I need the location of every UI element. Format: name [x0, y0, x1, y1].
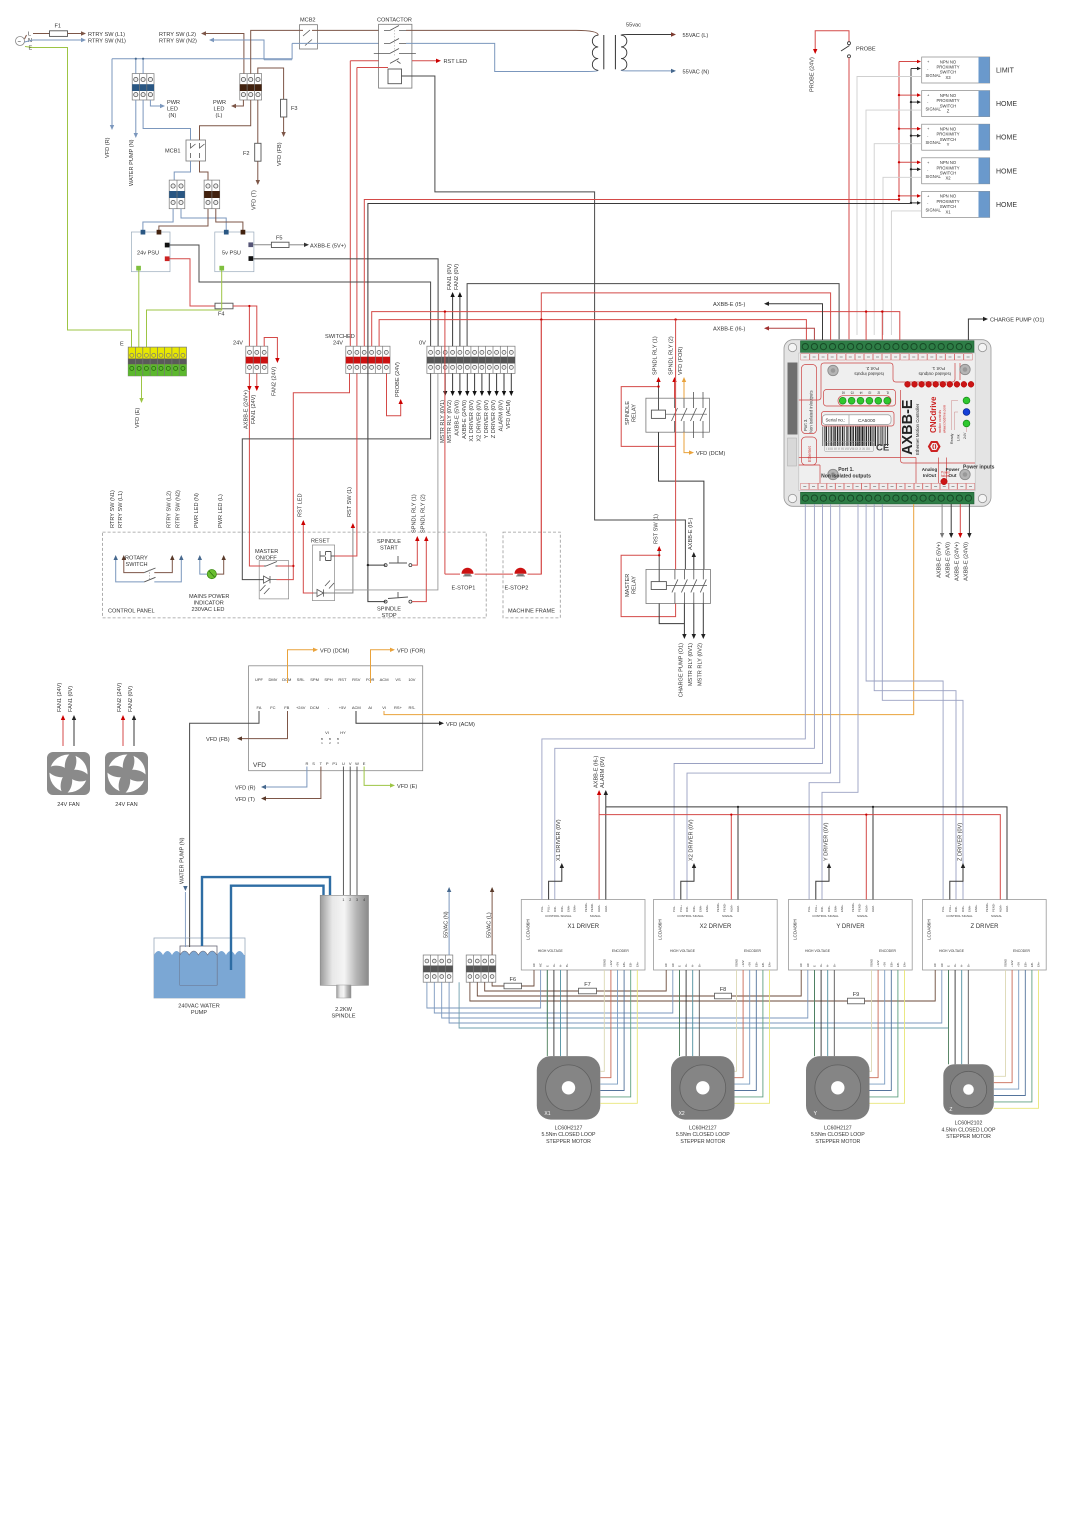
fan 24V FAN: [105, 752, 148, 808]
svg-text:SGND: SGND: [1004, 959, 1008, 967]
svg-text:Ethernet Motion Controller: Ethernet Motion Controller: [915, 403, 920, 455]
svg-text:55VAC (L): 55VAC (L): [486, 912, 492, 938]
svg-text:STEPPER MOTOR: STEPPER MOTOR: [680, 1139, 725, 1145]
wire E: [25, 47, 132, 348]
svg-text:RELAY: RELAY: [632, 576, 638, 594]
svg-text:PEND-: PEND-: [590, 903, 594, 912]
wire N through MCB2: [292, 42, 379, 44]
svg-text:PUL-: PUL-: [540, 906, 544, 912]
wire -: [911, 101, 917, 103]
svg-text:EB+: EB+: [1023, 961, 1027, 967]
wire AXBB-E (5V0): [950, 504, 952, 533]
wire VFD (DCM): [288, 650, 314, 683]
wire Z DRIVER (0V): [496, 373, 498, 391]
svg-text:SPINDLE: SPINDLE: [332, 1014, 356, 1020]
svg-text:W: W: [355, 761, 359, 766]
fuse F9: [848, 998, 865, 1004]
wire encoder bundle Z: [994, 970, 1006, 1076]
wire signal: [866, 110, 922, 335]
stepper motor X1 (LC60H2127): [537, 1056, 601, 1145]
svg-text:RST SW (1): RST SW (1): [653, 514, 659, 544]
svg-text:SGND: SGND: [735, 959, 739, 967]
wire VFD (E): [364, 767, 390, 786]
wire PWR LED (L): [236, 100, 243, 106]
svg-text:+12V: +12V: [609, 960, 613, 967]
wire prox 0V black bus: [910, 69, 912, 204]
svg-text:LCDA86H: LCDA86H: [927, 919, 932, 940]
wire step/dir 2: [555, 504, 815, 900]
svg-text:Port 1.: Port 1.: [931, 366, 945, 371]
svg-text:ALM-: ALM-: [604, 905, 608, 912]
svg-text:EB-: EB-: [896, 962, 900, 967]
svg-text:X1 DRIVER (0V): X1 DRIVER (0V): [556, 819, 562, 861]
svg-text:MCB1: MCB1: [165, 149, 181, 155]
small terminal block blue: [169, 180, 185, 209]
svg-text:EB+: EB+: [754, 961, 758, 967]
svg-text:WATER PUMP (N): WATER PUMP (N): [180, 837, 186, 884]
svg-text:SPM: SPM: [310, 677, 319, 682]
fuse F3: [258, 68, 284, 99]
wire prox 24V red bus: [898, 62, 900, 200]
wire MSTR RLY (0V2): [452, 373, 454, 391]
svg-text:ALM+: ALM+: [998, 904, 1002, 912]
wire red bus y320 relay feed: [379, 320, 806, 347]
svg-text:SIGNAL: SIGNAL: [590, 914, 601, 918]
svg-text:SPNDL RLY (1): SPNDL RLY (1): [412, 494, 418, 533]
wire PWR LED (N): [200, 560, 207, 574]
svg-text:PEND+: PEND+: [716, 902, 720, 912]
svg-text:RELAY: RELAY: [632, 404, 638, 422]
labels above: RTRY SW (N1): [110, 490, 118, 560]
wire AXBB-E (24V0): [466, 373, 468, 391]
svg-text:ALM+: ALM+: [729, 904, 733, 912]
svg-text:CNCdrive: CNCdrive: [929, 396, 938, 433]
svg-text:EB-: EB-: [1030, 962, 1034, 967]
svg-text:CONTROL SIGNAL: CONTROL SIGNAL: [545, 914, 572, 918]
svg-text:FAN1 (24V): FAN1 (24V): [57, 683, 63, 712]
svg-text:F1: F1: [55, 24, 62, 30]
svg-text:LCDA86H: LCDA86H: [793, 919, 798, 940]
svg-text:EB+: EB+: [622, 961, 626, 967]
svg-text:24V: 24V: [233, 341, 243, 347]
svg-text:24v PSU: 24v PSU: [137, 251, 159, 257]
terminal strip bottom: [801, 492, 975, 504]
wire +: [899, 61, 917, 63]
svg-text:Isolated inputs: Isolated inputs: [854, 372, 884, 377]
svg-text:VFD (ACM): VFD (ACM): [446, 722, 475, 728]
svg-text:PEND+: PEND+: [584, 902, 588, 912]
svg-text:VFD (ACM): VFD (ACM): [506, 400, 512, 429]
wire VFD (T): [266, 767, 321, 799]
wire FAN1 (0V): [73, 720, 75, 746]
svg-text:F8: F8: [720, 987, 727, 993]
coil: [388, 69, 402, 84]
wires into MCB1: [143, 100, 190, 140]
svg-text:AI: AI: [368, 705, 372, 710]
wire red bus inputs I3/I2/I1: [445, 312, 900, 340]
svg-text:SIGNAL: SIGNAL: [991, 914, 1002, 918]
wire estop1-estop2: [475, 573, 514, 575]
wire FAN1 (24V): [256, 373, 258, 386]
wire 55VAC (L) label: [491, 892, 493, 955]
svg-text:(N): (N): [169, 113, 177, 119]
svg-text:ALM-: ALM-: [1005, 905, 1009, 912]
svg-text:5.5Nm CLOSED LOOP: 5.5Nm CLOSED LOOP: [676, 1132, 730, 1138]
svg-text:I4: I4: [860, 390, 863, 394]
svg-text:FAN2 (24V): FAN2 (24V): [272, 367, 278, 396]
switch SPINDLE STOP: [384, 600, 387, 603]
svg-text:PUL+: PUL+: [547, 905, 551, 912]
svg-text:SPINDLE: SPINDLE: [377, 539, 401, 545]
svg-text:ENA+: ENA+: [573, 904, 577, 912]
svg-text:F6: F6: [510, 977, 517, 983]
PSU 5v: [215, 230, 254, 272]
svg-text:DIR-: DIR-: [553, 906, 557, 912]
wire PROBE (24V): [387, 373, 401, 415]
wire step/dir 6: [822, 504, 858, 900]
wire signal: [883, 177, 922, 335]
svg-text:AXBB-E (I5-): AXBB-E (I5-): [713, 302, 745, 308]
svg-text:PEND-: PEND-: [857, 903, 861, 912]
wire VFD FA to water pump: [190, 711, 259, 946]
wires green earth: [138, 271, 140, 348]
svg-text:AC: AC: [671, 963, 675, 967]
svg-text:E: E: [120, 342, 124, 348]
svg-text:FAN1 (0V): FAN1 (0V): [68, 686, 74, 712]
svg-text:RST SW (1): RST SW (1): [347, 487, 353, 517]
svg-text:+5V: +5V: [1017, 962, 1021, 967]
svg-text:LCDA86H: LCDA86H: [525, 919, 530, 940]
wire N contactor to transformer: [406, 43, 598, 71]
svg-text:PUMP: PUMP: [191, 1010, 207, 1016]
VFD: [249, 666, 423, 771]
wire RST LED: [303, 525, 313, 593]
stepper driver X1 DRIVER: [521, 900, 645, 971]
svg-text:Link: Link: [957, 434, 961, 441]
svg-text:Y DRIVER: Y DRIVER: [836, 924, 865, 930]
svg-text:AXBB-E (5V0): AXBB-E (5V0): [946, 542, 952, 578]
svg-text:RTRY SW (N1): RTRY SW (N1): [88, 38, 126, 44]
svg-text:(L): (L): [216, 113, 223, 119]
svg-text:FA: FA: [257, 705, 262, 710]
e-stop E-STOP2: [515, 568, 527, 574]
wire step/dir 4: [687, 504, 831, 900]
svg-text:X2: X2: [679, 1111, 685, 1117]
wire AXBB-E (5V0): [459, 373, 461, 391]
svg-text:LED: LED: [214, 107, 225, 113]
svg-text:X1: X1: [544, 1111, 550, 1117]
svg-text:SPINDLE: SPINDLE: [377, 607, 401, 613]
wire red bus estop2 to AXBB I4+: [541, 293, 830, 574]
wire Y DRIVER (0V): [816, 868, 829, 900]
wire gray 0V col2 to reset: [335, 373, 438, 590]
wire alarm 0V bus: [606, 807, 1007, 900]
svg-text:A-: A-: [691, 964, 695, 967]
svg-text:HOME: HOME: [996, 135, 1017, 142]
svg-text:AC: AC: [664, 963, 668, 967]
LED Link: [963, 409, 970, 416]
wire spindle relay red loop: [621, 387, 675, 447]
svg-text:ENCODER: ENCODER: [1013, 949, 1031, 953]
svg-text:24V FAN: 24V FAN: [57, 802, 79, 808]
svg-text:VS: VS: [395, 677, 401, 682]
wire red aux: [350, 61, 378, 347]
svg-text:Z DRIVER: Z DRIVER: [970, 924, 999, 930]
wire VFD U V W to spindle: [343, 767, 357, 896]
svg-text:RS-: RS-: [408, 705, 416, 710]
svg-text:MSTR RLY (0V1): MSTR RLY (0V1): [688, 643, 694, 686]
svg-text:F7: F7: [584, 982, 591, 988]
svg-text:ENA+: ENA+: [840, 904, 844, 912]
svg-text:SWITCHED: SWITCHED: [325, 334, 355, 340]
svg-text:DIR-: DIR-: [685, 906, 689, 912]
svg-text:AC: AC: [940, 963, 944, 967]
svg-text:E-STOP1: E-STOP1: [452, 586, 476, 592]
wire L to MCB2: [251, 30, 303, 73]
svg-text:+12V: +12V: [741, 960, 745, 967]
LED 24V: [963, 420, 970, 427]
svg-text:VFD (FB): VFD (FB): [206, 737, 230, 743]
svg-text:failure: failure: [941, 474, 950, 478]
wire signal: [857, 77, 922, 336]
svg-text:ENA+: ENA+: [974, 904, 978, 912]
svg-text:AXBB-E (24V+): AXBB-E (24V+): [955, 542, 961, 581]
svg-text:CONTROL SIGNAL: CONTROL SIGNAL: [812, 914, 839, 918]
svg-text:E: E: [813, 965, 817, 967]
svg-text:HOME: HOME: [996, 202, 1017, 209]
svg-text:PWR LED (L): PWR LED (L): [218, 494, 224, 528]
stepper motor Y (LC60H2127): [806, 1056, 870, 1145]
svg-text:Z DRIVER (0V): Z DRIVER (0V): [491, 400, 497, 438]
wire 0V to AXBB I2-: [467, 284, 839, 347]
svg-text:B+: B+: [565, 963, 569, 967]
svg-text:RTRY SW (N1): RTRY SW (N1): [110, 490, 116, 528]
svg-text:RTRY SW (N2): RTRY SW (N2): [159, 38, 197, 44]
svg-text:E: E: [29, 46, 33, 52]
svg-text:FC: FC: [270, 705, 275, 710]
fuse F7: [579, 988, 597, 994]
svg-text:RTRY SW (L1): RTRY SW (L1): [88, 32, 125, 38]
svg-text:A+: A+: [684, 963, 688, 967]
wire: [68, 33, 82, 35]
svg-text:ENA-: ENA-: [699, 905, 703, 912]
svg-text:START: START: [380, 546, 398, 552]
wire SPNDL RLY (1): [658, 382, 660, 410]
wire SPNDL RLY (2): [674, 382, 676, 398]
wire step/dir 3: [674, 504, 822, 900]
svg-text:HY: HY: [340, 730, 346, 735]
wire -: [911, 135, 917, 137]
probe switch PROBE: [815, 31, 849, 49]
svg-text:AC: AC: [799, 963, 803, 967]
wire water pump FA into tank: [189, 938, 191, 947]
svg-text:X1: X1: [945, 209, 951, 214]
svg-text:+5V: +5V: [883, 962, 887, 967]
proximity switch X1 (HOME): [922, 191, 1018, 217]
svg-text:Non isolated outputs: Non isolated outputs: [821, 474, 871, 480]
label VFD (R): [110, 125, 114, 130]
wire red bus estop1 feed: [372, 312, 445, 574]
wire AC L bus X2: [485, 982, 579, 991]
svg-text:MAINS POWER: MAINS POWER: [189, 594, 229, 600]
svg-text:SRL: SRL: [297, 677, 306, 682]
svg-text:B+: B+: [832, 963, 836, 967]
wire step/dir 8: [874, 504, 956, 900]
terminal block 55VAC N: [423, 955, 453, 982]
connector Ethernet: [788, 438, 797, 466]
svg-text:AXBB-E (24V0): AXBB-E (24V0): [964, 542, 970, 581]
svg-text:AXBB-E (I5-): AXBB-E (I5-): [688, 518, 694, 550]
proximity switch Z (HOME): [922, 91, 1018, 117]
svg-text:DCM: DCM: [310, 705, 319, 710]
svg-text:VFD: VFD: [253, 762, 266, 769]
wire AC N bus Y: [442, 970, 808, 1018]
svg-text:Y: Y: [947, 142, 950, 147]
svg-text:LC60H2102: LC60H2102: [955, 1121, 983, 1127]
wire FAN2 (0V): [133, 720, 135, 746]
svg-text:PEND+: PEND+: [985, 902, 989, 912]
wire red reset to contactor coil: [335, 373, 357, 556]
svg-text:VFD (FB): VFD (FB): [277, 142, 283, 166]
svg-text:ALM+: ALM+: [864, 904, 868, 912]
svg-text:VFD (E): VFD (E): [397, 784, 417, 790]
svg-text:RST: RST: [338, 677, 347, 682]
svg-text:3: 3: [356, 898, 358, 902]
svg-text:X2 DRIVER: X2 DRIVER: [700, 924, 732, 930]
wire water pump N into tank: [184, 938, 186, 947]
wire black coil: [402, 76, 686, 569]
svg-text:1: 1: [342, 898, 344, 902]
svg-text:ALM-: ALM-: [736, 905, 740, 912]
svg-text:EB-: EB-: [761, 962, 765, 967]
svg-text:Isolated outputs: Isolated outputs: [918, 372, 951, 377]
svg-text:STEPPER MOTOR: STEPPER MOTOR: [546, 1139, 591, 1145]
svg-text:RTRY SW (L1): RTRY SW (L1): [118, 491, 124, 528]
wire X2 DRIVER (0V): [681, 868, 694, 900]
svg-text:HIGH VOLTAGE: HIGH VOLTAGE: [939, 949, 965, 953]
wire +: [899, 195, 917, 197]
wire step/dir 7: [866, 504, 943, 900]
label WATER PUMP (N): [135, 100, 137, 133]
wire red 24V+ via F4: [170, 259, 216, 306]
svg-text:EA+: EA+: [768, 961, 772, 967]
svg-text:DCM: DCM: [282, 677, 291, 682]
svg-text:A-: A-: [960, 964, 964, 967]
svg-text:LC60H2127: LC60H2127: [824, 1126, 852, 1132]
svg-text:AXBB-E (5V+): AXBB-E (5V+): [310, 243, 346, 249]
wire -: [911, 202, 917, 204]
relay MASTER RELAY: [625, 569, 710, 603]
svg-text:R: R: [305, 761, 308, 766]
svg-text:WATER PUMP (N): WATER PUMP (N): [129, 139, 135, 186]
svg-text:E: E: [947, 965, 951, 967]
svg-text:PUL+: PUL+: [948, 905, 952, 912]
wire Z DRIVER (0V): [950, 868, 963, 900]
svg-text:HIGH VOLTAGE: HIGH VOLTAGE: [670, 949, 696, 953]
svg-text:ENCODER: ENCODER: [612, 949, 630, 953]
svg-text:VFD (T): VFD (T): [252, 190, 258, 210]
wire water pipe out: [202, 877, 330, 946]
svg-text:RST LED: RST LED: [298, 493, 304, 517]
stepper motor Z (LC60H2102): [942, 1064, 996, 1140]
wire FAN2 (24V): [264, 338, 277, 359]
wire WATER PUMP (N): [184, 892, 186, 946]
wire SPNDL RLY (1): [412, 541, 417, 565]
wire AXBB-E (24V+): [959, 504, 961, 533]
wire spindle relay to master relay: [659, 432, 704, 569]
wire black bus to prox and spindle start: [368, 204, 911, 602]
svg-text:DIR+: DIR+: [560, 905, 564, 912]
svg-text:MACHINE FRAME: MACHINE FRAME: [508, 609, 555, 615]
svg-text:MSTR RLY (0V2): MSTR RLY (0V2): [447, 400, 453, 443]
label RTRY SW (L1): [118, 491, 126, 560]
svg-text:VFD (T): VFD (T): [235, 797, 255, 803]
proximity switch X3 (LIMIT): [922, 57, 1015, 83]
connector Port 3: [788, 363, 798, 435]
LED Ready: [963, 397, 970, 404]
svg-text:I5: I5: [851, 390, 854, 394]
wire ALARM (0V): [503, 373, 505, 391]
svg-text:2018 2019 2020 2021 2022: 2018 2019 2020 2021 2022: [827, 443, 866, 447]
wire SPNDL RLY (2): [412, 541, 426, 602]
wire encoder bundle X1: [600, 970, 604, 1071]
svg-text:SGND: SGND: [602, 959, 606, 967]
svg-text:I2: I2: [877, 390, 880, 394]
svg-text:STOP: STOP: [382, 613, 397, 619]
svg-text:I3: I3: [868, 390, 871, 394]
svg-text:ROTARY: ROTARY: [125, 556, 148, 562]
LED power failure: [941, 478, 947, 484]
svg-text:In/Out: In/Out: [923, 473, 937, 478]
svg-text:INDICATOR: INDICATOR: [194, 601, 224, 607]
svg-text:HIGH VOLTAGE: HIGH VOLTAGE: [805, 949, 831, 953]
wire PWR LED (N): [150, 100, 160, 106]
barcode: [823, 427, 889, 447]
svg-text:ALARM (0V): ALARM (0V): [499, 400, 505, 432]
svg-text:RSV: RSV: [352, 677, 361, 682]
svg-text:Port 1.: Port 1.: [838, 467, 854, 473]
svg-text:AXBB-E (5V0): AXBB-E (5V0): [454, 400, 460, 436]
svg-text:55VAC (N): 55VAC (N): [443, 911, 449, 938]
relay SPINDLE RELAY: [625, 392, 709, 438]
svg-text:+5V: +5V: [616, 962, 620, 967]
svg-text:A+: A+: [552, 963, 556, 967]
svg-text:ACM: ACM: [352, 705, 361, 710]
fuse F2: [257, 100, 259, 143]
svg-text:CE: CE: [876, 443, 889, 454]
wire AC L bus Y: [477, 982, 714, 996]
svg-text:PWR: PWR: [167, 100, 180, 106]
svg-text:ALM+: ALM+: [597, 904, 601, 912]
svg-text:F9: F9: [853, 992, 860, 998]
wire AXBB-E (5V+): [941, 504, 943, 533]
label RTRY SW (N2): [176, 490, 184, 560]
wire FAN1 (0V): [452, 297, 454, 346]
wire CHARGE PUMP (O1): [968, 319, 983, 340]
wire VFD (R): [266, 767, 307, 788]
wire VFD (FOR): [683, 382, 685, 398]
svg-text:X1 DRIVER: X1 DRIVER: [567, 924, 599, 930]
svg-text:X1 DRIVER (0V): X1 DRIVER (0V): [469, 400, 475, 442]
svg-text:PUL+: PUL+: [679, 905, 683, 912]
svg-text:24V: 24V: [963, 432, 967, 439]
svg-text:FAN2 (0V): FAN2 (0V): [128, 686, 134, 712]
svg-text:CONTACTOR: CONTACTOR: [377, 18, 412, 24]
svg-text:Non isolated in/outputs: Non isolated in/outputs: [809, 390, 814, 433]
terminal strip top: [801, 341, 975, 353]
proximity switch Y (HOME): [922, 124, 1018, 150]
svg-text:FAN1 (0V): FAN1 (0V): [447, 264, 453, 290]
